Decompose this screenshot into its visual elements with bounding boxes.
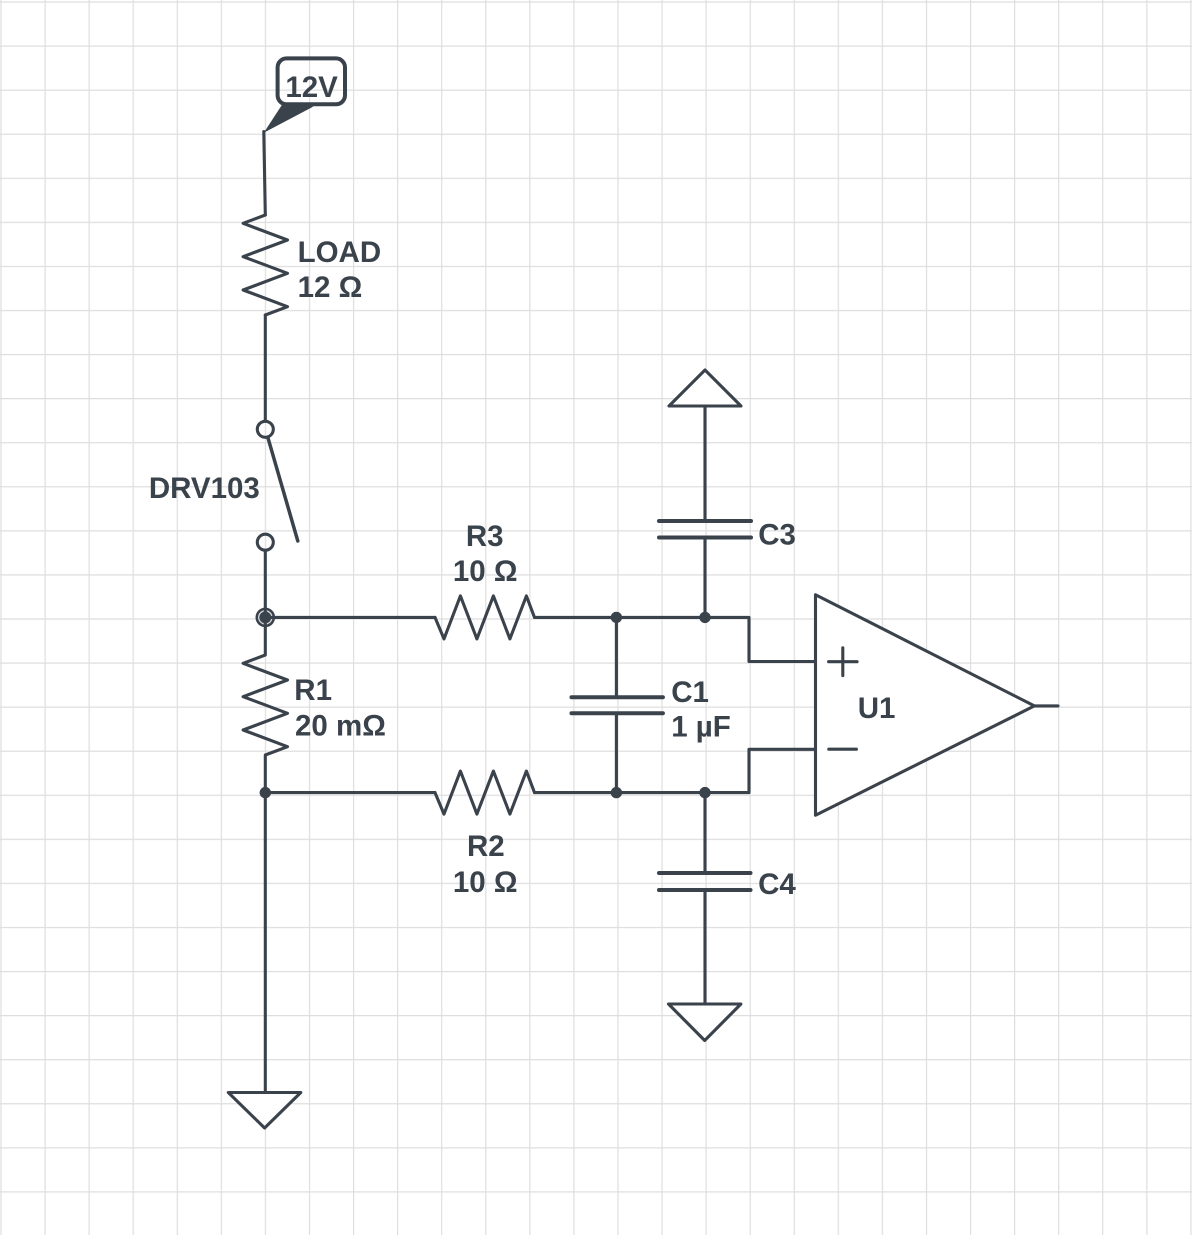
svg-text:LOAD: LOAD — [298, 236, 382, 269]
node F junction — [699, 787, 710, 798]
svg-text:R2: R2 — [467, 830, 505, 863]
wire from LOAD to switch — [264, 315, 267, 420]
resistor R1 — [243, 617, 287, 792]
svg-text:C4: C4 — [758, 868, 796, 901]
svg-text:C1: C1 — [671, 676, 709, 709]
capacitor C1 — [572, 617, 663, 792]
wire R2 to op-amp - input — [535, 749, 816, 792]
wire node A to R3 — [265, 616, 435, 619]
svg-text:DRV103: DRV103 — [149, 472, 260, 505]
svg-text:10 Ω: 10 Ω — [453, 866, 518, 899]
node A junction — [255, 608, 275, 628]
resistor R3 — [435, 596, 535, 639]
wire from switch to node A — [264, 552, 267, 618]
node E junction — [611, 787, 622, 798]
wire R3 to op-amp + input — [535, 617, 816, 661]
power source 12V callout box — [264, 58, 345, 132]
svg-text:12V: 12V — [285, 71, 338, 104]
wire from node B to ground — [264, 793, 267, 1093]
capacitor C3 — [659, 406, 751, 617]
svg-text:1 µF: 1 µF — [671, 710, 731, 743]
node B junction — [260, 787, 271, 798]
svg-text:12 Ω: 12 Ω — [298, 271, 363, 304]
svg-text:C3: C3 — [758, 519, 796, 552]
node C junction — [611, 612, 622, 623]
svg-text:R3: R3 — [466, 520, 504, 553]
svg-text:10 Ω: 10 Ω — [453, 555, 518, 588]
op-amp output wire — [1034, 704, 1058, 707]
ground (left) — [228, 1093, 300, 1129]
svg-text:R1: R1 — [294, 674, 332, 707]
svg-text:20 mΩ: 20 mΩ — [295, 709, 386, 742]
ground (right) — [669, 1004, 741, 1041]
capacitor C4 — [659, 793, 751, 1004]
power arrow VCC — [669, 370, 741, 406]
switch DRV103 — [257, 421, 298, 550]
node D junction — [699, 612, 710, 623]
resistor LOAD — [243, 215, 287, 315]
op-amp U1 — [816, 595, 1035, 816]
resistor R2 — [435, 771, 535, 814]
wire from 12V to LOAD — [264, 132, 266, 216]
wire node B to R2 — [265, 791, 435, 794]
svg-text:U1: U1 — [858, 692, 896, 725]
